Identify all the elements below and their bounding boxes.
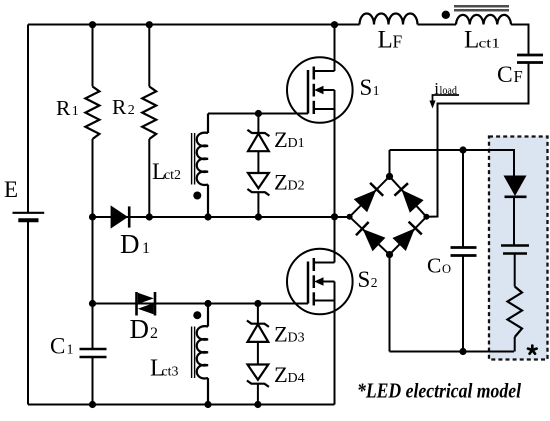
battery E [13,213,45,221]
svg-text:Z: Z [274,127,288,152]
wire LED to cap [513,197,515,245]
inductor Lct3 [197,304,208,405]
svg-text:D2: D2 [288,179,305,194]
wire left rail upper [27,25,29,213]
core Lct1 [454,6,509,10]
arrow S2 [314,277,323,285]
MOSFET S1 [287,57,353,123]
wire D2 row to C1 [92,304,94,349]
wire D1 row [93,216,350,218]
wire R2 branch top [148,25,150,87]
capacitor CO [451,248,477,256]
wire S1 drain [334,25,336,72]
svg-text:F: F [393,32,403,52]
svg-text:D4: D4 [288,371,305,386]
svg-text:E: E [4,177,18,202]
zener ZD1 [247,130,269,151]
svg-text:L: L [378,27,393,54]
svg-text:1: 1 [142,240,150,257]
phase dot Lct2 [193,192,201,200]
svg-text:load: load [440,85,458,97]
svg-text:D1: D1 [288,136,305,151]
wire resistor to bottom [514,337,516,352]
svg-text:i: i [434,79,439,98]
wire between ZD1 ZD2 [257,151,259,174]
inductor Lct1 [456,15,511,25]
svg-text:D3: D3 [288,331,305,346]
wire S1 gate row [208,113,308,115]
zener ZD2 [247,173,269,195]
wire ZD2 to D1 row [257,192,259,217]
wire bridge top vertical [389,150,391,176]
wire top rail right segment [418,24,457,26]
wire R1 bottom to D1 row [92,139,94,217]
core Lct2 [192,133,195,185]
bridge diode top-left [354,183,383,212]
capacitor CF [517,55,543,63]
wire bridge bottom vertical [389,255,391,352]
inductor LF [360,14,418,25]
svg-text:D: D [120,229,140,259]
svg-text:ct1: ct1 [479,37,501,52]
wire load top rail [390,150,515,176]
svg-text:S: S [358,267,371,292]
wire top rail [28,24,360,26]
wire R1 branch top [92,25,94,87]
wire left rail lower [27,221,29,405]
wire ZD4 to bottom rail [257,384,259,405]
LED model shaded box [489,137,548,360]
svg-text:O: O [442,262,451,276]
wire S1 source to D1 row [334,109,336,217]
zener ZD4 [247,365,269,387]
svg-text:S: S [360,75,373,100]
svg-text:D: D [130,314,150,344]
wire CO bottom [462,256,464,352]
resistor R2 [142,87,156,140]
wire zener branch top [257,114,259,134]
svg-text:2: 2 [128,103,135,118]
svg-text:Z: Z [274,170,288,195]
wire S2 drain [334,217,336,263]
svg-text:1: 1 [373,83,380,98]
capacitor C1 [80,349,107,357]
bridge diode bottom-right [393,222,422,251]
label asterisk in box [528,346,537,354]
iload arrow [429,95,459,109]
diode D1 [111,205,130,228]
wire CF to iload corner [426,63,528,217]
phase dot Lct1 [442,11,450,19]
wire S2 source to bottom rail [334,301,336,405]
MOSFET S2 [287,249,353,315]
wire cap to resistor [514,253,516,287]
svg-text:ct2: ct2 [164,168,181,183]
zener ZD3 [247,321,269,342]
svg-text:1: 1 [72,104,79,119]
diac D2 [137,292,156,316]
svg-text:Z: Z [274,362,288,387]
wire load bottom rail [390,351,515,353]
svg-text:Z: Z [274,322,288,347]
svg-text:*LED electrical model: *LED electrical model [357,379,521,403]
inductor Lct2 [197,114,208,218]
wire R1 line D1 row to D2 row [92,217,94,304]
bridge diamond wires [350,176,427,254]
svg-text:R: R [112,95,127,119]
svg-text:C: C [50,334,65,359]
svg-text:2: 2 [150,325,158,342]
wire zener branch lower top [257,304,259,324]
wire C1 bottom [92,357,94,405]
svg-text:L: L [464,27,479,54]
wire D2 row [93,303,309,305]
svg-text:R: R [56,96,71,120]
core Lct3 [192,327,195,379]
wire bottom rail [28,404,335,406]
bridge diode bottom-left [356,222,385,251]
phase dot Lct3 [193,311,201,319]
svg-text:C: C [427,254,441,278]
svg-text:C: C [497,62,513,88]
wire Lct1 to CF corner [511,25,529,55]
wire CO top [462,150,464,247]
bridge diode top-right [394,183,423,212]
svg-text:2: 2 [371,275,378,290]
svg-text:1: 1 [67,343,74,358]
capacitor LED model [501,246,529,254]
arrow S1 [314,86,323,94]
wire R2 bottom to D1 row [148,139,150,217]
resistor LED model [508,287,523,338]
svg-text:F: F [514,67,523,86]
svg-text:ct3: ct3 [162,365,179,380]
wire between ZD3 ZD4 [257,342,259,366]
resistor R1 [85,87,99,140]
LED diode in model [504,176,527,197]
